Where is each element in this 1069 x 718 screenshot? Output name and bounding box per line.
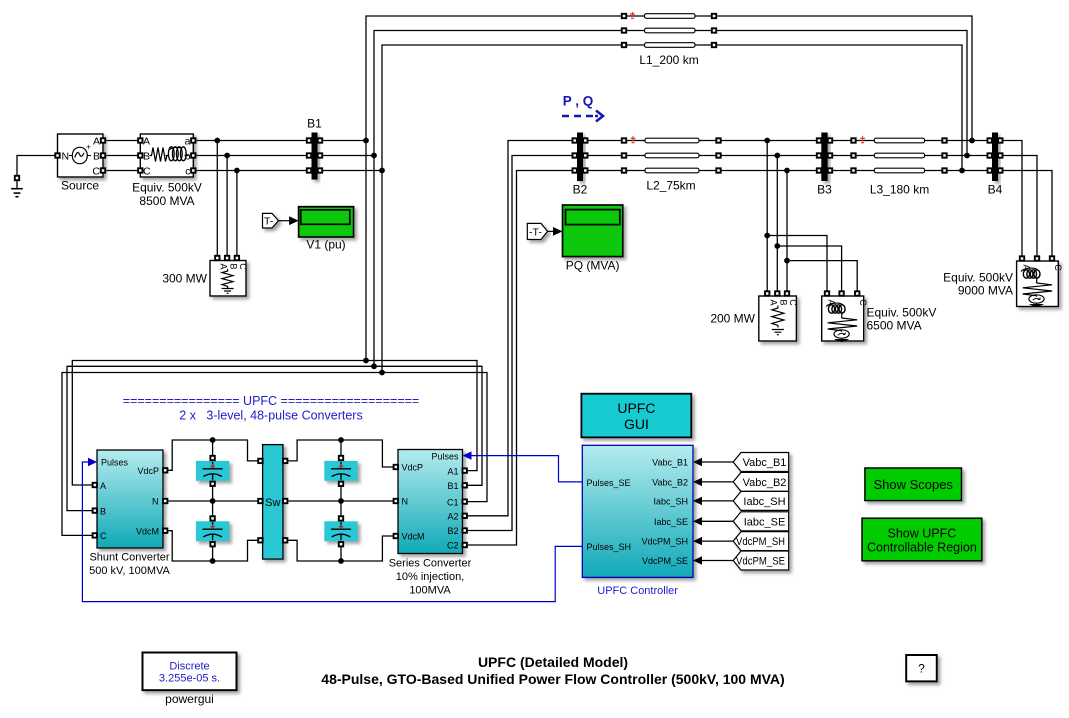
block load 300 MW [210, 261, 248, 297]
svg-text:N: N [152, 497, 159, 507]
wire Sw bottom-right to cap4 to series VdcM [283, 536, 398, 561]
svg-text:C2: C2 [447, 541, 459, 551]
svg-text:c: c [185, 166, 190, 178]
capacitor C2 [196, 516, 229, 546]
svg-text:A2: A2 [447, 512, 458, 522]
wire branch to 6500MVA phase C [787, 261, 857, 294]
svg-text:Iabc_SH: Iabc_SH [743, 496, 785, 508]
ports of L2 [622, 138, 626, 142]
wire equiv c to B1 [193, 170, 311, 172]
junction dots middle row [764, 138, 790, 264]
from tag Iabc_SE [733, 512, 789, 531]
block Source [58, 134, 104, 178]
svg-text:9000 MVA: 9000 MVA [958, 284, 1013, 298]
svg-text:VdcM: VdcM [402, 532, 425, 542]
svg-text:C: C [100, 531, 107, 541]
svg-text:Pulses_SE: Pulses_SE [587, 478, 631, 488]
wire top rail phase B [374, 31, 967, 367]
svg-text:A1: A1 [447, 466, 458, 476]
svg-text:Source: Source [61, 179, 99, 193]
display V1 (pu) [299, 207, 354, 237]
svg-text:B2: B2 [573, 183, 588, 197]
line L2 pill phase A [645, 138, 699, 143]
svg-text:VdcP: VdcP [402, 463, 424, 473]
bus B2 [577, 133, 583, 182]
block help ? [906, 655, 937, 681]
svg-text:2 x 3-level, 48-pulse Conver: 2 x 3-level, 48-pulse Converters [179, 409, 362, 423]
wire tag Iabc_SH [699, 500, 733, 502]
line L3 pill phase B [874, 153, 924, 158]
L2 polarity mark [631, 136, 636, 142]
wire B2 to B3 phase C [583, 170, 821, 172]
wire equiv a to B1 [193, 140, 311, 142]
svg-text:100MVA: 100MVA [409, 585, 451, 597]
svg-text:?: ? [918, 662, 925, 676]
from tag VdcPM_SE [733, 551, 789, 570]
svg-text:6500 MVA: 6500 MVA [867, 319, 922, 333]
block UPFC Controller [582, 445, 693, 577]
wire branch down to 200MW phase B [776, 156, 778, 294]
svg-text:C1: C1 [447, 497, 459, 507]
block Equiv. 500kV 8500 MVA [140, 134, 193, 178]
svg-text:Equiv. 500kV: Equiv. 500kV [943, 271, 1013, 285]
svg-text:Vabc_B2: Vabc_B2 [743, 477, 787, 489]
svg-text:UPFC: UPFC [617, 400, 655, 416]
wire pulses_SH blue (controller to shunt converter) [82, 462, 582, 602]
ground symbol [11, 189, 23, 197]
wire B4 to equiv9000 phase B [998, 156, 1037, 259]
wire series B2 up to B2 [463, 156, 573, 531]
block Series Converter [398, 450, 463, 554]
svg-text:A: A [100, 481, 106, 491]
junction dots top section [214, 138, 974, 174]
svg-text:VdcPM_SE: VdcPM_SE [642, 556, 688, 566]
WIRES-TOP-SECTION [17, 16, 972, 373]
svg-text:-T-: -T- [529, 227, 542, 239]
svg-text:Show UPFC: Show UPFC [888, 527, 957, 541]
wire top rail phase C [382, 45, 962, 373]
inductor coil icon [166, 155, 189, 157]
svg-text:Pulses: Pulses [101, 458, 129, 468]
svg-text:C: C [1053, 264, 1063, 271]
wire cap3 stems [340, 440, 342, 501]
svg-text:B1: B1 [307, 117, 322, 131]
svg-text:10% injection,: 10% injection, [396, 571, 465, 583]
svg-text:Equiv. 500kV: Equiv. 500kV [867, 306, 937, 320]
wire phase A rail to shunt A and series A1 [72, 361, 477, 486]
svg-text:Pulses: Pulses [431, 451, 459, 461]
annotation dashed arrow [562, 111, 603, 122]
WIRES-UPFC-DC [163, 440, 398, 561]
svg-text:C: C [238, 263, 248, 270]
svg-text:P , Q: P , Q [563, 94, 594, 109]
capacitor C1 [196, 456, 229, 486]
line L3 pill phase A [874, 138, 924, 143]
ports of Equiv [138, 138, 142, 142]
wire B3 to B4 phase A [828, 140, 992, 142]
wire shunt VdcP to cap1 to Sw top-left [163, 440, 263, 470]
wire branch down to load 300MW phase C [236, 171, 238, 259]
svg-text:Controllable Region: Controllable Region [867, 541, 977, 555]
svg-text:VdcPM_SH: VdcPM_SH [641, 537, 688, 547]
svg-text:powergui: powergui [165, 692, 214, 706]
from tag Vabc_B1 [733, 453, 789, 472]
wire branch to 6500MVA phase A [767, 236, 827, 294]
ports of Source [55, 153, 59, 157]
WIRES from tags to controller [699, 462, 733, 561]
svg-text:L1_200 km: L1_200 km [639, 53, 698, 67]
wire B4 to equiv9000 phase A [998, 141, 1022, 259]
wire pulses_SE blue (controller to series converter) [470, 456, 582, 482]
junction dots UPFC rails [363, 358, 369, 364]
goto tag T- [263, 213, 279, 228]
svg-text:C: C [143, 166, 151, 178]
wire cap4 stems [340, 501, 342, 561]
svg-text:================ UPFC ========: ================ UPFC ==================… [123, 394, 419, 408]
wire cap1 stems [212, 440, 214, 501]
wire branch down to 200MW phase A [766, 141, 768, 294]
line L1 pill phase B [645, 28, 696, 33]
svg-text:Shunt Converter: Shunt Converter [89, 552, 169, 564]
svg-text:L3_180 km: L3_180 km [870, 183, 929, 197]
wire top rail phase A (B1 to B4 via L1) [366, 16, 972, 361]
wire branch down to load 300MW phase A [216, 141, 218, 259]
svg-text:Iabc_SE: Iabc_SE [744, 516, 786, 528]
wire Sw N to series N [283, 500, 398, 502]
bus B3 [821, 133, 827, 182]
svg-text:GUI: GUI [624, 416, 649, 432]
svg-text:Sw: Sw [265, 497, 280, 509]
svg-text:A: A [768, 299, 778, 305]
svg-text:3.255e-05 s.: 3.255e-05 s. [159, 673, 220, 685]
svg-text:B4: B4 [988, 183, 1003, 197]
svg-text:V1 (pu): V1 (pu) [306, 238, 345, 252]
wire B1 right phase A [318, 140, 367, 142]
wire B1 right phase B [318, 155, 375, 157]
wire shunt VdcM to cap2 to Sw bottom-left [163, 531, 263, 561]
svg-text:A: A [93, 136, 100, 148]
from tag Vabc_B2 [733, 472, 789, 491]
svg-text:B: B [143, 151, 150, 163]
wire equiv b to B1 [193, 155, 311, 157]
ports of 200 MW [765, 291, 769, 295]
from tag VdcPM_SH [733, 532, 789, 551]
wire source C to equiv C [103, 170, 140, 172]
svg-text:VdcP: VdcP [137, 466, 159, 476]
button Show UPFC Controllable Region [862, 518, 982, 561]
svg-text:200 MW: 200 MW [710, 312, 755, 326]
block UPFC GUI [581, 394, 691, 438]
wire B2 to B3 phase B [583, 155, 821, 157]
arrowhead pulses series [463, 451, 472, 459]
block Equiv. 500kV 9000 MVA [1017, 261, 1063, 307]
svg-text:48-Pulse, GTO-Based Unified Po: 48-Pulse, GTO-Based Unified Power Flow C… [321, 671, 784, 687]
svg-text:Show Scopes: Show Scopes [873, 477, 953, 492]
block Shunt Converter [97, 450, 163, 548]
svg-text:B3: B3 [817, 183, 832, 197]
wire B3 to B4 phase B [828, 155, 992, 157]
svg-text:Iabc_SE: Iabc_SE [654, 517, 688, 527]
wire branch down to load 300MW phase B [226, 156, 228, 259]
svg-text:T-: T- [264, 216, 274, 228]
wire B1 right phase C [318, 170, 383, 172]
L1 polarity mark [630, 12, 635, 18]
wire tag VdcPM_SH [699, 540, 733, 542]
ports of 6500 MVA [825, 291, 829, 295]
wire tag to PQ display [548, 230, 556, 232]
wire phase C rail to shunt C and series C1 [62, 373, 487, 536]
wire branch to 6500MVA phase B [777, 246, 841, 294]
svg-text:Equiv. 500kV: Equiv. 500kV [132, 181, 202, 195]
wire ground to source N [17, 156, 58, 189]
wire phase B rail to shunt B and series B1 [67, 366, 482, 510]
bus B4 [992, 133, 998, 182]
svg-text:N: N [402, 497, 409, 507]
ground port [15, 176, 19, 180]
svg-text:Series Converter: Series Converter [389, 558, 472, 570]
wire tag Vabc_B2 [699, 481, 733, 483]
wire source B to equiv B [103, 155, 140, 157]
svg-text:B: B [93, 151, 100, 163]
wire series C2 up to B2 [463, 171, 573, 546]
line L1 pill phase A [645, 14, 696, 19]
svg-text:300 MW: 300 MW [162, 272, 207, 286]
ports of Shunt Converter [93, 483, 97, 487]
svg-text:VdcM: VdcM [136, 526, 159, 536]
from tag Iabc_SH [733, 491, 789, 510]
line L1 pill phase C [645, 43, 696, 48]
wire tag VdcPM_SE [699, 560, 733, 562]
svg-text:B: B [100, 506, 106, 516]
svg-text:a: a [185, 136, 191, 148]
svg-text:+: + [86, 143, 91, 152]
line L2 pill phase B [645, 153, 699, 158]
svg-text:UPFC Controller: UPFC Controller [597, 585, 678, 597]
resistor zigzag icon [150, 148, 170, 162]
ports of Sw [258, 459, 262, 463]
svg-text:L2_75km: L2_75km [646, 179, 695, 193]
line L3 pill phase C [874, 168, 924, 173]
svg-text:PQ (MVA): PQ (MVA) [566, 259, 620, 273]
wire tag Iabc_SE [699, 520, 733, 522]
wire branch down to 200MW phase C [786, 171, 788, 294]
capacitor C4 [324, 516, 357, 546]
wire B3 to B4 phase C [828, 170, 992, 172]
arrowheads into controller [693, 458, 702, 565]
svg-text:B: B [779, 299, 789, 305]
svg-text:Iabc_SH: Iabc_SH [653, 496, 688, 506]
svg-text:N: N [62, 151, 70, 163]
wire shunt N to Sw [163, 500, 263, 502]
display PQ (MVA) [563, 205, 623, 257]
bus B1 [312, 133, 318, 180]
svg-text:C: C [92, 166, 100, 178]
wire cap2 stems [212, 501, 214, 561]
ports of L1 [622, 14, 626, 18]
svg-text:A: A [143, 136, 150, 148]
svg-text:Pulses_SH: Pulses_SH [587, 542, 632, 552]
wire Sw top-right to cap3 to series VdcP [283, 440, 398, 467]
svg-text:B2: B2 [447, 526, 458, 536]
block load 200 MW [759, 296, 798, 341]
ports of 300 MW [215, 256, 219, 260]
block Equiv. 500kV 6500 MVA [822, 296, 868, 342]
WIRES-UPFC-AC [62, 361, 487, 536]
arrowhead pulses shunt [88, 458, 97, 466]
goto tag -T- [527, 223, 547, 239]
svg-text:Discrete: Discrete [169, 661, 209, 673]
line L2 pill phase C [645, 168, 699, 173]
wire B4 to equiv9000 phase C [998, 171, 1052, 259]
WIRES-MIDDLE-ROW [463, 141, 1053, 546]
wire source A to equiv A [103, 140, 140, 142]
wire tag Vabc_B1 [699, 461, 733, 463]
ports of Series Converter [394, 465, 398, 469]
svg-text:A: A [219, 263, 229, 269]
ports of L3 [851, 138, 855, 142]
svg-text:500 kV, 100MVA: 500 kV, 100MVA [89, 565, 170, 577]
junction dots DC rails [210, 437, 344, 564]
svg-text:UPFC (Detailed Model): UPFC (Detailed Model) [478, 654, 628, 670]
svg-text:C: C [788, 299, 798, 306]
svg-text:VdcPM_SE: VdcPM_SE [736, 556, 785, 568]
svg-text:B1: B1 [447, 481, 458, 491]
wire series A2 up to B2 [463, 141, 573, 516]
button Show Scopes [865, 468, 962, 501]
svg-text:Vabc_B1: Vabc_B1 [652, 458, 688, 468]
wire B2 to B3 phase A [583, 140, 821, 142]
svg-text:Vabc_B1: Vabc_B1 [743, 457, 787, 469]
svg-text:Vabc_B2: Vabc_B2 [652, 477, 688, 487]
block powergui [143, 653, 237, 691]
capacitor C3 [324, 456, 357, 486]
svg-text:B: B [228, 263, 238, 269]
ports of 9000 MVA [1020, 256, 1024, 260]
wire tag to V1 display [279, 220, 292, 222]
block Sw [263, 445, 283, 559]
L3 polarity mark [860, 136, 865, 142]
svg-text:8500 MVA: 8500 MVA [139, 194, 194, 208]
svg-text:VdcPM_SH: VdcPM_SH [736, 536, 785, 548]
